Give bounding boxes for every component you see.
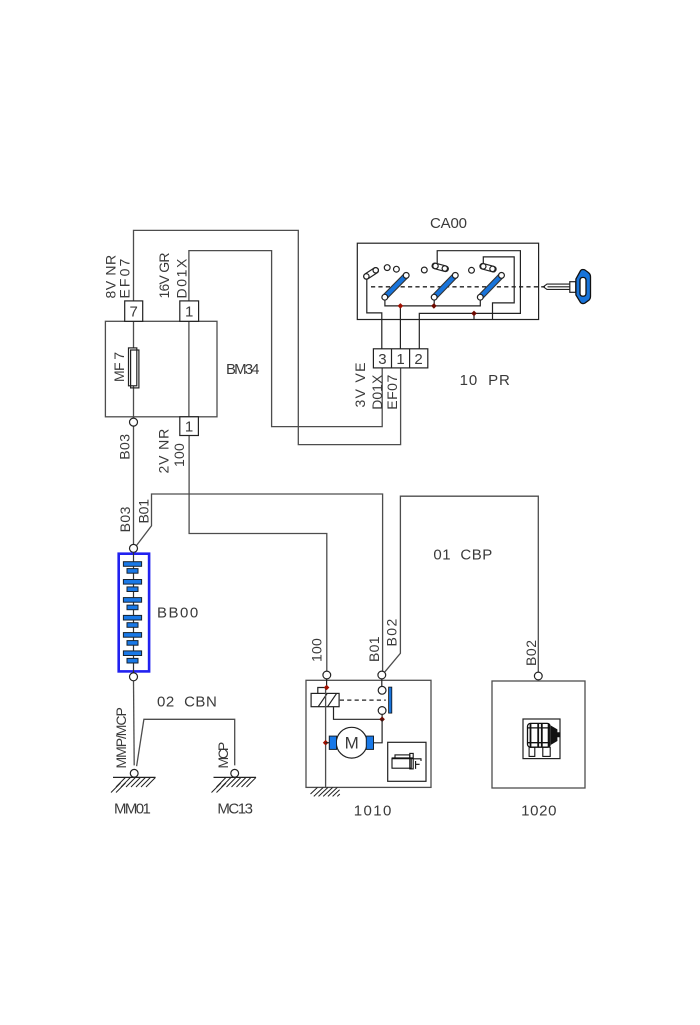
svg-text:B01: B01 xyxy=(135,499,151,524)
unit CA00 ignition switch box xyxy=(357,243,538,319)
contact pill 1 xyxy=(363,267,380,281)
wire B02 : 1010 to 1020 xyxy=(385,496,539,672)
svg-text:MCP: MCP xyxy=(215,742,231,769)
svg-text:7: 7 xyxy=(130,304,138,321)
key head xyxy=(576,270,591,304)
contact circle sw3 xyxy=(469,267,475,273)
dashed relay link xyxy=(340,699,386,701)
relay contact xyxy=(378,679,392,719)
contact circle sw2 xyxy=(421,267,427,273)
junction dot xyxy=(398,303,404,309)
wire 02 CBN : MM01 to MC13 xyxy=(137,719,235,766)
relay coil xyxy=(311,693,339,706)
wire B01 : BB00 junction to 1010 xyxy=(136,494,382,671)
junction dot xyxy=(431,303,437,309)
CA00 bus: switch commons to pin 1 xyxy=(385,300,480,349)
unit BM34 box xyxy=(105,321,217,417)
pin 1 of BM34 top xyxy=(180,301,199,321)
svg-text:EF07: EF07 xyxy=(117,258,133,298)
wire B03 : BM34 to BB00 xyxy=(133,426,135,544)
svg-text:D01X: D01X xyxy=(174,258,190,298)
junction dot xyxy=(323,740,329,746)
wire contact to motor xyxy=(374,719,383,743)
svg-text:1010: 1010 xyxy=(354,803,392,820)
motor M xyxy=(329,727,373,758)
ground MC13 xyxy=(212,769,257,792)
svg-text:MF 7: MF 7 xyxy=(111,352,127,382)
svg-text:2V NR: 2V NR xyxy=(156,429,172,474)
BM34 internal wire pin1 xyxy=(188,321,190,417)
wire net 16V GR D01X : BM34 pin1 to CA00 pin3 xyxy=(189,251,382,427)
svg-text:D01X: D01X xyxy=(369,374,385,410)
svg-text:3: 3 xyxy=(378,351,386,368)
wire to motor left brush xyxy=(326,742,330,744)
svg-text:MMP/MCP: MMP/MCP xyxy=(113,707,129,768)
wire coil to ground xyxy=(325,688,327,788)
unit 1010 starter box xyxy=(306,680,431,787)
starter pictogram frame xyxy=(388,742,426,781)
svg-text:1020: 1020 xyxy=(521,803,556,820)
contact circles sw1 xyxy=(384,265,390,271)
svg-text:1: 1 xyxy=(396,351,404,368)
CA00 net: left contact to pin 3 xyxy=(367,279,382,349)
switch blade 3 xyxy=(477,273,504,301)
svg-text:01 CBP: 01 CBP xyxy=(433,546,492,563)
svg-text:100: 100 xyxy=(171,443,187,467)
relay feed wire xyxy=(318,679,327,694)
node circle pin 100 of 1010 xyxy=(323,671,331,679)
svg-text:BB00: BB00 xyxy=(157,605,198,622)
unit 1020 alternator box xyxy=(492,681,585,788)
node circle pin B02 of 1020 xyxy=(534,672,542,680)
svg-text:16V GR: 16V GR xyxy=(156,253,172,299)
ground hatch under 1010 xyxy=(311,787,340,796)
CA00 net: pin 2 to switch2 upper contact xyxy=(419,251,520,349)
battery BB00 xyxy=(119,544,149,680)
wire coil output to contact xyxy=(334,707,383,720)
pin 7 of BM34 xyxy=(125,301,143,321)
CA00 net: switch3 upper contact loop xyxy=(483,257,514,320)
dashed actuation line xyxy=(371,286,545,288)
pin 1 of BM34 bottom xyxy=(180,417,199,436)
svg-text:2: 2 xyxy=(414,351,422,368)
svg-text:MM01: MM01 xyxy=(114,801,151,818)
svg-text:BM34: BM34 xyxy=(226,361,260,378)
junction dot xyxy=(471,311,477,317)
contact pill 2 xyxy=(431,262,448,272)
svg-text:MC13: MC13 xyxy=(217,801,253,818)
CA00 stub at junction xyxy=(473,313,475,319)
svg-text:B01: B01 xyxy=(366,636,382,662)
connector 3 1 2 xyxy=(373,349,427,368)
wire net 8V NR EF07 : BM34 pin7 to CA00 pin1 xyxy=(134,230,401,444)
wire BB00 to ground MM01 xyxy=(133,681,136,766)
svg-text:10 PR: 10 PR xyxy=(460,372,510,389)
svg-text:B02: B02 xyxy=(384,618,400,646)
ground MM01 xyxy=(111,769,156,792)
junction dot xyxy=(324,685,330,691)
svg-text:M: M xyxy=(345,734,359,753)
svg-text:EF07: EF07 xyxy=(384,374,400,409)
svg-text:3V VE: 3V VE xyxy=(352,363,368,408)
svg-text:1: 1 xyxy=(185,304,193,321)
fuse MF7 xyxy=(129,348,139,388)
node circle BM34 bottom xyxy=(130,418,138,426)
svg-text:1: 1 xyxy=(185,418,193,435)
key shaft xyxy=(543,282,576,293)
svg-text:B03: B03 xyxy=(117,506,133,532)
alternator pictogram xyxy=(523,719,560,759)
node circle pin B01 of 1010 xyxy=(378,671,386,679)
switch blade 2 xyxy=(431,273,458,301)
wire 100 : BM34 pin1 bottom to 1010 xyxy=(189,436,327,672)
BM34 internal wire pin7 xyxy=(133,321,135,418)
junction dot xyxy=(379,717,385,723)
contact pill 3 xyxy=(479,263,496,273)
switch blade 1 xyxy=(382,273,409,301)
svg-text:CA00: CA00 xyxy=(430,215,467,232)
svg-text:02 CBN: 02 CBN xyxy=(157,694,217,711)
svg-text:B03: B03 xyxy=(116,434,132,460)
svg-text:100: 100 xyxy=(309,638,325,662)
svg-text:B02: B02 xyxy=(523,640,539,666)
